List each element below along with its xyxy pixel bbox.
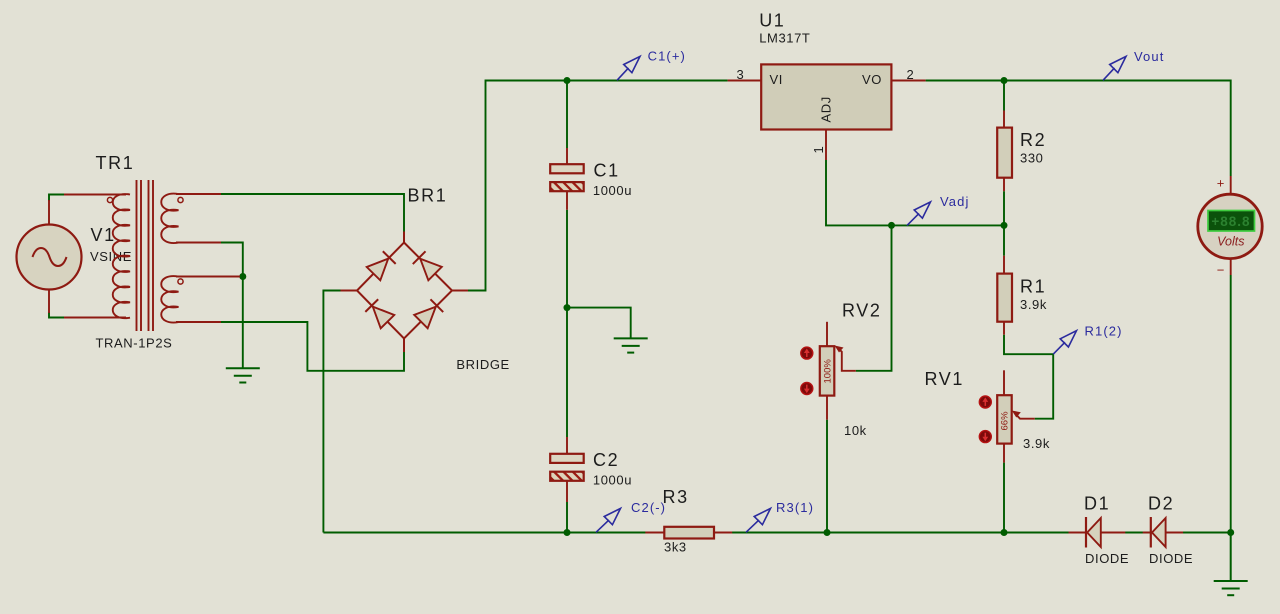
- capacitor C2: [550, 437, 632, 502]
- transformer TR1: [64, 153, 240, 351]
- svg-text:100%: 100%: [823, 359, 834, 384]
- wire bridge right vertex to top rail to U1 VI: [468, 81, 728, 291]
- RV1 up button: [979, 396, 991, 408]
- svg-text:R2: R2: [1020, 130, 1046, 150]
- wire node to C2: [566, 308, 568, 437]
- net label R1(2): [1053, 324, 1122, 355]
- svg-text:Vout: Vout: [1134, 49, 1164, 64]
- bridge diode bottom-right: [414, 299, 443, 328]
- bridge diode top-left: [367, 251, 396, 280]
- source V1: [17, 200, 133, 313]
- svg-text:BRIDGE: BRIDGE: [456, 357, 509, 372]
- svg-text:ADJ: ADJ: [819, 96, 834, 122]
- svg-text:RV2: RV2: [842, 301, 882, 321]
- diode D1: [1069, 494, 1130, 567]
- node RV2 bottom: [824, 529, 831, 536]
- wire C1 to ground node: [566, 210, 568, 308]
- svg-text:VO: VO: [862, 72, 882, 87]
- resistor R3: [645, 487, 732, 555]
- svg-text:330: 330: [1020, 151, 1044, 166]
- bridge rectifier BR1: [341, 186, 510, 373]
- svg-text:R1(2): R1(2): [1085, 324, 1123, 339]
- node RV2 wiper net: [888, 222, 895, 229]
- svg-text:−: −: [1217, 263, 1225, 278]
- svg-text:TRAN-1P2S: TRAN-1P2S: [96, 336, 173, 351]
- potentiometer RV1: [925, 369, 1050, 463]
- wire U1 VO to right rail down to voltmeter: [926, 81, 1231, 177]
- potentiometer RV2: [801, 301, 882, 439]
- svg-text:C2(-): C2(-): [631, 500, 666, 515]
- wire node to middle ground: [567, 308, 631, 338]
- wire V1 bottom corner: [49, 312, 66, 318]
- svg-text:3: 3: [737, 67, 745, 82]
- capacitor C1: [550, 148, 632, 210]
- diode D2: [1143, 494, 1193, 567]
- wire R2 to Vadj rail: [1003, 191, 1005, 225]
- node RV1 bottom: [1001, 529, 1008, 536]
- ground middle: [614, 338, 648, 352]
- node C1 top: [564, 77, 571, 84]
- svg-text:10k: 10k: [844, 423, 867, 438]
- svg-text:C2: C2: [593, 450, 619, 470]
- node C1 bottom: [564, 304, 571, 311]
- node C2 bottom: [564, 529, 571, 536]
- wire voltmeter minus down to bottom rail: [1230, 275, 1232, 533]
- wire U1 ADJ to Vadj rail: [826, 160, 1004, 225]
- svg-text:V1: V1: [91, 225, 116, 245]
- svg-text:Vadj: Vadj: [940, 194, 969, 209]
- wire transformer top secondary to bridge top vertex: [221, 194, 404, 232]
- svg-text:1: 1: [811, 146, 826, 154]
- svg-text:TR1: TR1: [96, 153, 135, 173]
- node Vadj: [1001, 222, 1008, 229]
- svg-text:R3(1): R3(1): [776, 500, 814, 515]
- svg-text:2: 2: [907, 67, 915, 82]
- svg-text:3.9k: 3.9k: [1023, 436, 1050, 451]
- wire top rail to R2: [1003, 81, 1005, 111]
- node R2 top: [1001, 77, 1008, 84]
- RV1 down button: [979, 431, 991, 443]
- RV2 wiper: [837, 347, 856, 371]
- ground bottom right: [1214, 533, 1248, 596]
- svg-text:DIODE: DIODE: [1085, 551, 1129, 566]
- svg-text:BR1: BR1: [408, 186, 448, 206]
- regulator U1 LM317T: [728, 11, 926, 161]
- svg-text:VI: VI: [770, 72, 783, 87]
- resistor R1: [997, 256, 1047, 335]
- wire bottom rail: [323, 532, 1230, 534]
- svg-text:C1: C1: [594, 161, 620, 181]
- wire Vadj rail to R1: [1003, 225, 1005, 255]
- wire bridge left vertex down to bottom rail: [323, 291, 340, 533]
- net label Vadj: [907, 194, 969, 225]
- svg-text:U1: U1: [759, 11, 785, 31]
- svg-text:LM317T: LM317T: [759, 31, 810, 46]
- node transformer center tap: [239, 273, 246, 280]
- wire transformer center tap to ground: [221, 243, 243, 368]
- svg-text:D2: D2: [1148, 494, 1174, 514]
- ground center tap: [226, 368, 260, 382]
- net label Vout: [1103, 49, 1164, 80]
- svg-text:1000u: 1000u: [593, 183, 632, 198]
- svg-text:RV1: RV1: [925, 369, 965, 389]
- RV2 up button: [801, 347, 813, 359]
- svg-text:+88.8: +88.8: [1211, 214, 1250, 229]
- svg-text:R1: R1: [1020, 277, 1046, 297]
- svg-text:R3: R3: [663, 487, 689, 507]
- RV1 wiper: [1015, 413, 1035, 419]
- svg-text:DIODE: DIODE: [1149, 551, 1193, 566]
- svg-text:66%: 66%: [1000, 411, 1011, 431]
- net label R3(1): [746, 500, 814, 532]
- wire RV2 bottom to bottom rail: [826, 420, 828, 533]
- RV2 down button: [801, 383, 813, 395]
- resistor R2: [997, 111, 1046, 192]
- svg-text:C1(+): C1(+): [648, 49, 686, 64]
- svg-text:D1: D1: [1084, 494, 1110, 514]
- voltmeter: [1198, 176, 1262, 278]
- net label C2(-): [596, 500, 666, 532]
- wire top rail to C1: [566, 81, 568, 149]
- bridge diode top-right: [412, 251, 441, 280]
- svg-text:3.9k: 3.9k: [1020, 297, 1047, 312]
- net label C1(+): [617, 49, 686, 81]
- bridge diode bottom-left: [365, 299, 394, 328]
- node bottom right corner: [1227, 529, 1234, 536]
- svg-text:3k3: 3k3: [664, 540, 687, 555]
- wire C2 to bottom rail: [566, 502, 568, 533]
- wire R1 bottom to RV1 wiper: [1004, 335, 1053, 419]
- svg-text:1000u: 1000u: [593, 473, 632, 488]
- wire RV1 bottom to bottom rail: [1003, 463, 1005, 533]
- wire Vadj node to RV2 wiper: [856, 225, 892, 370]
- svg-text:+: +: [1217, 176, 1225, 191]
- wire transformer bottom secondary to bridge bottom vertex: [221, 322, 404, 371]
- svg-text:Volts: Volts: [1217, 235, 1244, 249]
- wire V1 top corner: [49, 195, 66, 202]
